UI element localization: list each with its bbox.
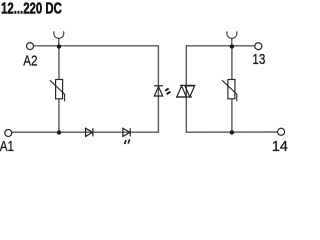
- wire: left varistor branch vertical: [58, 46, 60, 132]
- triac U1b (right box left edge, output switch): [176, 85, 195, 97]
- wire: top-left horizontal (A2 to left box corner): [34, 45, 159, 47]
- terminal 13: [255, 43, 262, 50]
- svg-text:14: 14: [272, 139, 288, 154]
- diode D1 (series input diode): [86, 128, 93, 136]
- terminal 14: [278, 128, 285, 135]
- terminal A2: [27, 43, 34, 50]
- wire: bottom-right horizontal (right box corner to terminal 14): [186, 131, 277, 133]
- varistor RV2 (right, across output): [222, 80, 237, 102]
- svg-text:13: 13: [252, 51, 265, 68]
- connector: right plug socket cup: [227, 31, 237, 44]
- node: left top junction: [57, 44, 61, 48]
- svg-text:A1: A1: [0, 138, 14, 154]
- label: voltage range title 12...220 DC: [1, 0, 62, 17]
- svg-text:A2: A2: [23, 52, 37, 69]
- varistor RV1 (left, across input): [50, 80, 65, 102]
- node: right top junction: [230, 44, 234, 48]
- node: right bottom junction: [230, 130, 234, 134]
- terminal A1: [5, 130, 12, 137]
- wire: right varistor branch vertical: [231, 46, 233, 132]
- wire: top-right horizontal (right box corner to terminal 13): [186, 45, 254, 47]
- svg-text:12...220 DC: 12...220 DC: [1, 0, 62, 17]
- connector: left plug socket cup: [54, 31, 64, 44]
- node: left bottom junction: [57, 130, 61, 134]
- optocoupler light arrows: [165, 88, 171, 95]
- optocoupler LED U1a (left box right edge, vertical): [154, 86, 163, 96]
- LED D2 (status indicator diode): [123, 128, 130, 136]
- wire: bottom-left horizontal (A1 to left box corner): [12, 131, 159, 133]
- wire: right box left edge vertical: [185, 45, 187, 133]
- LED D2 emission arrows: [124, 139, 131, 144]
- wire: left box right edge vertical: [157, 45, 159, 133]
